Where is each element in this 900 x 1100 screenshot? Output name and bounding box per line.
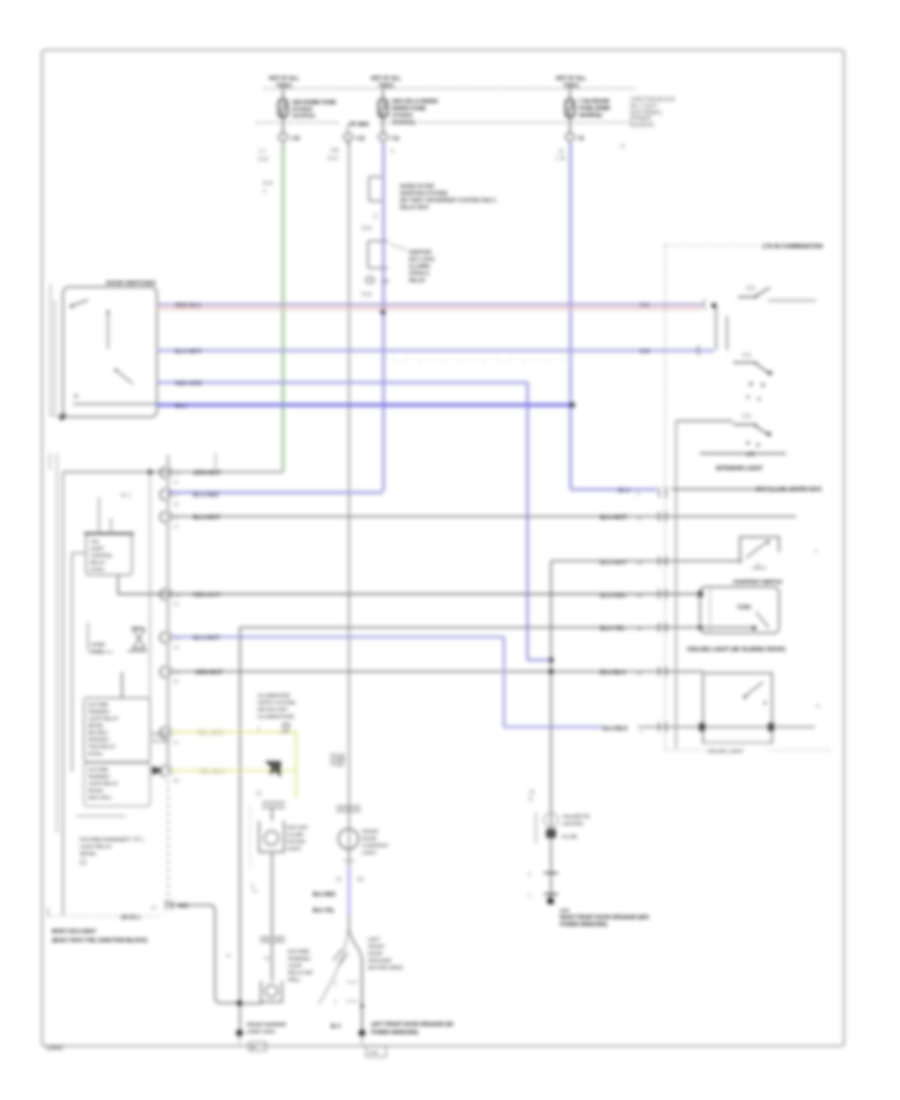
svg-text:ENTRY SYSTEM: ENTRY SYSTEM <box>258 700 295 706</box>
svg-text:SOURCE): SOURCE) <box>392 120 415 126</box>
svg-text:W/O ILLUM. ENTRY SYS: W/O ILLUM. ENTRY SYS <box>755 487 822 493</box>
svg-text:BLU: BLU <box>618 488 630 494</box>
svg-text:57A: 57A <box>742 353 752 359</box>
svg-text:RELAY (W/: RELAY (W/ <box>288 970 313 976</box>
svg-text:BLU-RED: BLU-RED <box>193 493 219 499</box>
svg-text:(A): (A) <box>357 877 364 883</box>
svg-text:NOISE: NOISE <box>152 732 168 738</box>
svg-text:(POWER: (POWER <box>392 113 413 119</box>
svg-text:SPEAKER: SPEAKER <box>368 958 392 964</box>
svg-text:HOT AT ALL: HOT AT ALL <box>371 76 402 82</box>
svg-text:G-W: G-W <box>258 157 269 163</box>
svg-text:L20410: L20410 <box>46 1046 63 1052</box>
svg-text:BLU-YEL: BLU-YEL <box>313 908 335 914</box>
svg-text:COURTESY: COURTESY <box>362 843 389 849</box>
svg-text:ILLUMIN-: ILLUMIN- <box>409 264 431 270</box>
svg-text:GRN-WHT: GRN-WHT <box>193 471 221 477</box>
svg-text:BLU-WHT: BLU-WHT <box>175 349 203 355</box>
svg-text:I 11: I 11 <box>391 136 400 142</box>
svg-text:BLU-WHT: BLU-WHT <box>193 515 221 521</box>
svg-text:TIMES: TIMES <box>563 84 579 90</box>
svg-text:(W/ KEY-OFF: (W/ KEY-OFF <box>258 707 288 713</box>
svg-text:(IGNITION SYSTEM): (IGNITION SYSTEM) <box>400 191 448 197</box>
svg-text:COURTESY SWITCH: COURTESY SWITCH <box>733 580 782 586</box>
svg-text:TION RELAY: TION RELAY <box>88 744 115 749</box>
svg-text:IH: IH <box>251 1045 256 1050</box>
svg-text:4: 4 <box>391 149 394 155</box>
svg-text:TURN: TURN <box>737 605 751 611</box>
svg-text:(POWER: (POWER <box>292 107 313 113</box>
svg-text:CEILING LIGHT (W/ SLIDING ROOF: CEILING LIGHT (W/ SLIDING ROOF) <box>687 647 786 653</box>
svg-text:RELAY BOX: RELAY BOX <box>400 205 429 211</box>
svg-text:BLU-RED: BLU-RED <box>313 892 336 898</box>
svg-text:(POWER: (POWER <box>630 116 652 122</box>
svg-text:1J: 1J <box>382 279 388 285</box>
svg-text:15A DOME FUSE: 15A DOME FUSE <box>292 100 336 106</box>
svg-text:11: 11 <box>637 516 642 521</box>
svg-text:DAYTIME: DAYTIME <box>88 767 108 772</box>
svg-text:8: 8 <box>175 515 178 520</box>
svg-text:TAIL: TAIL <box>90 539 100 544</box>
svg-text:NO.1 (LEFT: NO.1 (LEFT <box>630 103 659 109</box>
svg-text:G15: G15 <box>560 908 569 914</box>
svg-text:1C: 1C <box>173 480 180 485</box>
svg-text:1 5: 1 5 <box>258 149 265 155</box>
svg-text:B-W: B-W <box>362 226 372 232</box>
svg-text:ATION &: ATION & <box>409 271 430 277</box>
svg-text:FUSE: FUSE <box>91 649 103 654</box>
svg-text:J/B NO.1: J/B NO.1 <box>120 915 141 921</box>
svg-text:RADIO FUSE: RADIO FUSE <box>392 106 426 112</box>
svg-text:(COIL): (COIL) <box>90 567 105 572</box>
svg-text:DOOR: DOOR <box>368 951 383 957</box>
svg-text:9: 9 <box>637 491 640 496</box>
svg-text:B-W: B-W <box>263 181 273 187</box>
svg-text:(W/ THEFT DETERRENT SYSTEM ONL: (W/ THEFT DETERRENT SYSTEM ONLY) <box>400 198 496 204</box>
svg-text:14: 14 <box>264 956 270 962</box>
svg-text:RUNNING: RUNNING <box>88 709 110 714</box>
svg-text:4: 4 <box>257 727 260 733</box>
svg-text:34: 34 <box>336 877 342 883</box>
svg-text:POWER WINDOWS): POWER WINDOWS) <box>371 1030 419 1036</box>
svg-text:(W/ PWR WDO): (W/ PWR WDO) <box>368 965 403 971</box>
svg-text:FRONT: FRONT <box>368 944 385 950</box>
svg-text:NOISE FILTER: NOISE FILTER <box>400 184 434 190</box>
svg-text:16: 16 <box>529 790 535 796</box>
svg-text:(W/O DRL): (W/O DRL) <box>88 795 111 800</box>
svg-text:CONTROL: CONTROL <box>90 553 113 558</box>
svg-text:TIMES: TIMES <box>276 84 292 90</box>
svg-text:RUNNING: RUNNING <box>88 774 110 779</box>
svg-text:FILTER: FILTER <box>152 739 169 745</box>
svg-text:(MAIN): (MAIN) <box>80 851 96 857</box>
svg-text:LIGHT RELAY: LIGHT RELAY <box>88 781 118 786</box>
svg-text:14: 14 <box>637 671 643 676</box>
svg-text:W-B: W-B <box>178 904 188 910</box>
svg-text:RELAY: RELAY <box>90 560 105 565</box>
svg-text:2: 2 <box>334 981 337 987</box>
svg-text:KICK PANEL): KICK PANEL) <box>630 110 662 116</box>
svg-text:(W/ DRL): (W/ DRL) <box>88 730 108 735</box>
svg-text:LIGHTER: LIGHTER <box>562 821 584 827</box>
svg-text:SOURCE): SOURCE) <box>630 123 654 129</box>
svg-text:DRL): DRL) <box>288 977 300 983</box>
svg-text:KEY-OFF: KEY-OFF <box>287 825 308 831</box>
svg-text:1G: 1G <box>173 602 180 607</box>
svg-text:IG 1: IG 1 <box>121 493 131 499</box>
svg-text:17: 17 <box>175 670 181 675</box>
svg-text:1E: 1E <box>173 502 179 507</box>
svg-text:(COIL): (COIL) <box>88 751 103 756</box>
svg-text:KEY LOCK: KEY LOCK <box>409 257 435 263</box>
svg-text:HOT AT ALL: HOT AT ALL <box>269 76 300 82</box>
svg-text:3: 3 <box>251 884 254 890</box>
svg-text:BLU-WHT: BLU-WHT <box>193 636 221 642</box>
svg-text:IGNITION: IGNITION <box>409 250 432 256</box>
svg-text:INTERIOR LIGHT: INTERIOR LIGHT <box>716 466 763 472</box>
svg-text:CIGARETTE: CIGARETTE <box>562 814 591 820</box>
svg-text:B-W: B-W <box>362 292 372 298</box>
svg-text:BODY ECU ASSY: BODY ECU ASSY <box>52 929 97 935</box>
svg-text:ILLUMINATION): ILLUMINATION) <box>258 714 294 720</box>
svg-text:LIGHT: LIGHT <box>90 546 104 551</box>
svg-text:RED-GRN: RED-GRN <box>175 381 202 387</box>
svg-text:LIGHT: LIGHT <box>362 850 376 856</box>
svg-text:B-Y: B-Y <box>331 1024 341 1030</box>
svg-text:BLU: BLU <box>175 404 187 410</box>
svg-text:LIGHT ASSY: LIGHT ASSY <box>247 1029 276 1035</box>
svg-text:SOURCE): SOURCE) <box>579 113 602 119</box>
svg-text:J 5: J 5 <box>338 757 345 763</box>
svg-text:RUNNING: RUNNING <box>288 956 311 962</box>
svg-text:JUNCTION BLOCK: JUNCTION BLOCK <box>630 97 676 103</box>
svg-text:1F: 1F <box>173 524 179 529</box>
svg-text:B-W: B-W <box>640 349 650 355</box>
svg-text:8: 8 <box>374 214 377 220</box>
svg-text:NATION: NATION <box>287 839 306 845</box>
svg-text:L-W: L-W <box>556 156 565 162</box>
svg-text:POWER WINDOWS): POWER WINDOWS) <box>560 922 608 928</box>
svg-text:(MAIN): (MAIN) <box>88 723 103 728</box>
svg-text:SOURCE): SOURCE) <box>292 114 315 120</box>
svg-text:3: 3 <box>528 872 531 878</box>
svg-text:15: 15 <box>256 791 262 797</box>
svg-text:ILLUMINATED: ILLUMINATED <box>258 693 291 699</box>
svg-text:ILLUMI-: ILLUMI- <box>287 832 305 838</box>
svg-text:ILLUM.: ILLUM. <box>562 834 578 840</box>
svg-text:R: R <box>621 144 625 150</box>
svg-text:LIGHT RELAY: LIGHT RELAY <box>80 844 112 850</box>
svg-text:15A CIG & RADIO: 15A CIG & RADIO <box>392 99 439 105</box>
svg-text:1: 1 <box>334 1000 337 1006</box>
svg-text:57A: 57A <box>742 414 752 420</box>
svg-text:B-W: B-W <box>328 156 338 162</box>
svg-text:TIMES: TIMES <box>378 84 394 90</box>
svg-text:INTEGRA-: INTEGRA- <box>88 737 111 742</box>
svg-text:R-B: R-B <box>640 303 649 309</box>
svg-text:RELAY: RELAY <box>409 278 426 284</box>
svg-text:4: 4 <box>338 764 341 770</box>
svg-text:1A: 1A <box>173 740 180 745</box>
svg-text:FUSE (PWR: FUSE (PWR <box>579 106 610 112</box>
svg-text:(W/ DRL): (W/ DRL) <box>123 837 144 843</box>
svg-text:1: 1 <box>640 729 643 734</box>
svg-text:9: 9 <box>175 493 178 498</box>
svg-text:LIGHT: LIGHT <box>287 846 301 852</box>
svg-text:57A: 57A <box>746 286 756 292</box>
svg-text:G14: G14 <box>369 1050 378 1056</box>
svg-text:LEFT FRONT DOOR SPEAKER (W/: LEFT FRONT DOOR SPEAKER (W/ <box>371 1022 454 1028</box>
svg-text:DAYTIME RUNNING: DAYTIME RUNNING <box>80 837 125 843</box>
svg-text:DOOR SWITCHES: DOOR SWITCHES <box>106 281 156 287</box>
svg-text:GRN-WHT: GRN-WHT <box>195 670 223 676</box>
svg-text:DAYTIME: DAYTIME <box>288 949 310 955</box>
svg-text:10: 10 <box>637 627 643 632</box>
svg-text:1: 1 <box>528 893 531 899</box>
svg-text:10: 10 <box>175 471 181 476</box>
svg-text:FRONT: FRONT <box>362 829 379 835</box>
svg-text:11: 11 <box>175 636 180 641</box>
svg-text:16: 16 <box>151 905 157 910</box>
svg-text:5: 5 <box>263 189 266 195</box>
svg-text:I 10: I 10 <box>291 136 300 142</box>
svg-text:14: 14 <box>558 149 564 155</box>
svg-text:1H: 1H <box>173 645 179 650</box>
svg-text:LIGHT RELAY: LIGHT RELAY <box>88 716 118 721</box>
svg-text:10A: 10A <box>330 148 340 154</box>
svg-text:31: 31 <box>226 953 232 958</box>
svg-text:7.5A ROOM: 7.5A ROOM <box>579 99 609 105</box>
svg-text:I/P W/H: I/P W/H <box>349 122 369 128</box>
svg-text:BLU-BLK: BLU-BLK <box>600 670 627 676</box>
svg-text:57A: 57A <box>746 452 755 458</box>
svg-text:HOT AT ALL: HOT AT ALL <box>556 76 587 82</box>
svg-text:1B: 1B <box>173 778 179 783</box>
svg-text:BLU-BLK: BLU-BLK <box>602 726 629 732</box>
svg-text:BLU-YEL: BLU-YEL <box>600 626 626 632</box>
svg-text:LEFT: LEFT <box>368 937 380 943</box>
svg-text:RIGHT FRONT DOOR SPEAKER (W/O: RIGHT FRONT DOOR SPEAKER (W/O <box>560 915 649 921</box>
svg-text:DAYTIME: DAYTIME <box>88 702 108 707</box>
svg-text:(BUILT INTO THE JUNCTION BLOCK: (BUILT INTO THE JUNCTION BLOCK) <box>52 938 148 944</box>
svg-text:LTS IN COMBINATION: LTS IN COMBINATION <box>762 244 823 250</box>
svg-text:LIGHT: LIGHT <box>288 963 302 969</box>
svg-text:CEILING LIGHT: CEILING LIGHT <box>707 749 744 755</box>
svg-text:I 8: I 8 <box>578 136 584 142</box>
svg-text:FRONT MARKER: FRONT MARKER <box>247 1022 286 1028</box>
svg-text:BLU-WHT: BLU-WHT <box>600 515 628 521</box>
svg-text:DOME: DOME <box>91 642 105 647</box>
svg-text:I 12: I 12 <box>356 136 365 142</box>
svg-text:DOOR: DOOR <box>362 836 377 842</box>
svg-text:RED-BLU: RED-BLU <box>175 303 201 309</box>
svg-text:1D: 1D <box>173 679 180 684</box>
svg-text:(MAIN): (MAIN) <box>88 788 103 793</box>
